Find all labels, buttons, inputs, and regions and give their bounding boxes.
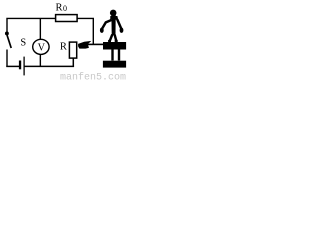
svg-text:R: R [56,3,63,14]
battery cell: long thin positive plate [23,57,25,76]
platform left leg [111,50,113,61]
platform right leg [118,50,120,61]
wire from R0 to top-right corner and down [77,18,93,44]
wire R bottom stub [72,59,74,68]
svg-text:0: 0 [63,4,67,13]
switch S blade and contact gap [5,31,9,35]
resistor R (pressure sensitive, vertical) [69,42,76,58]
person standing on platform [100,10,124,43]
svg-text:manfen5.com: manfen5.com [60,72,126,82]
wire left vertical below switch (switch gap above) [6,50,8,68]
pressure arrow from platform pressing on R [88,43,104,45]
wire voltmeter branch to bottom wire [39,54,41,67]
battery cell: short thick negative plate [19,61,21,70]
platform top plate [103,42,126,50]
svg-text:R: R [60,42,67,53]
resistor R0 [56,15,78,22]
wire bottom middle from battery to R stub corner [24,65,74,67]
svg-text:V: V [38,43,46,54]
voltmeter V circle [33,39,49,54]
platform base plate [103,61,126,68]
svg-text:S: S [20,37,26,48]
wire bottom left to battery [6,65,19,67]
wire voltmeter branch from top wire [39,18,41,39]
wire top horizontal from top-left corner to R0 [7,18,56,34]
